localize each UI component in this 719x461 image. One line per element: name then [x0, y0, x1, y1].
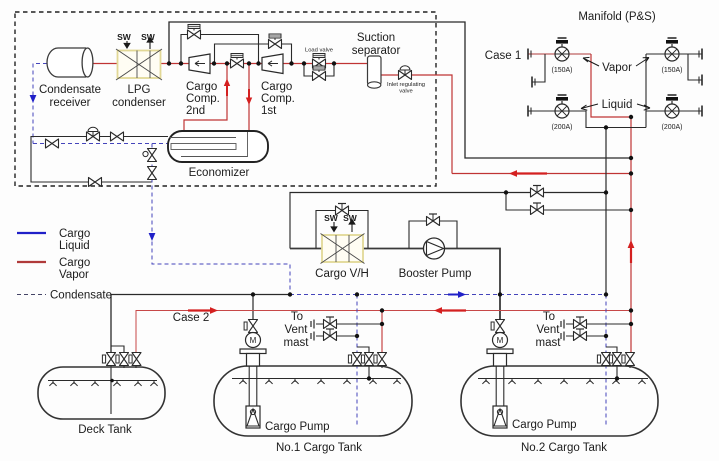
- svg-text:(200A): (200A): [661, 124, 682, 131]
- compressor cargo comp 2nd: [189, 54, 210, 74]
- spray nozzles no.2 tank: [482, 379, 489, 384]
- valve economizer line: [111, 132, 124, 141]
- compressor cargo comp 1st: [262, 54, 283, 74]
- svg-text:1st: 1st: [261, 105, 277, 117]
- valve booster bypass: [427, 214, 440, 226]
- no.2 tank valve group: flange+valve x3: [597, 355, 600, 363]
- svg-text:mast: mast: [284, 337, 310, 349]
- wire: V/H to booster pump main: [363, 249, 500, 323]
- wire: No.1 tank elbow: [357, 347, 369, 353]
- wire: manifold left vapor lower outlet: [532, 54, 545, 82]
- wire: manifold right liquid line: [646, 110, 702, 112]
- wire: manifold left liquid line: [528, 111, 646, 128]
- svg-text:Inlet regulating: Inlet regulating: [387, 82, 425, 88]
- arrow condensate down at drain: [149, 233, 156, 241]
- svg-text:Suction: Suction: [357, 32, 395, 44]
- wire: deck tank elbow: [111, 346, 124, 353]
- wire: crossover branch y=210: [506, 193, 631, 211]
- svg-text:To: To: [543, 311, 555, 323]
- wire: No.2 tank elbow: [606, 347, 617, 353]
- spray nozzles deck tank: [49, 381, 56, 386]
- wire: liquid header deck/No.1 y=294.5: [111, 295, 290, 356]
- flange no.1 vent upper: [311, 320, 314, 329]
- svg-text:(150A): (150A): [551, 67, 572, 74]
- svg-text:Comp.: Comp.: [261, 93, 295, 105]
- valve drain upper with gauge: [148, 149, 157, 162]
- wire: No.1 vent upper: [316, 323, 382, 325]
- svg-text:No.1 Cargo Tank: No.1 Cargo Tank: [276, 442, 362, 454]
- valve load upper: [313, 54, 326, 69]
- svg-text:Booster Pump: Booster Pump: [399, 268, 472, 280]
- flange no.2 vent upper: [561, 320, 564, 329]
- svg-text:Vapor: Vapor: [602, 62, 632, 74]
- valve no.1 vent upper: [324, 317, 337, 329]
- condensate receiver vessel: [47, 48, 93, 77]
- svg-text:separator: separator: [352, 45, 401, 57]
- wire: manifold left vapor line: [528, 53, 591, 55]
- wire: black economizer liquid line y=136.5: [31, 137, 168, 183]
- valve no.2 vent lower: [574, 329, 587, 341]
- valve no.1 vent lower: [324, 329, 337, 341]
- svg-text:Deck Tank: Deck Tank: [78, 424, 132, 436]
- wire: receiver condensate drain dashed: [33, 64, 47, 144]
- wire: red economizer drop B: [248, 64, 250, 132]
- LPG condenser heat exchanger: [116, 49, 162, 80]
- arrow economizer riser up: [226, 85, 228, 96]
- svg-text:2nd: 2nd: [186, 105, 205, 117]
- svg-text:Cargo: Cargo: [59, 257, 90, 269]
- no.1 tank valve group: flange+valve x3: [348, 355, 351, 363]
- arrow case2 right: [188, 309, 211, 311]
- wire: bypass loop A over comp 2nd: [181, 35, 259, 64]
- svg-text:mast: mast: [536, 337, 562, 349]
- valve economizer dome: [87, 127, 100, 141]
- svg-text:Vent: Vent: [284, 324, 308, 336]
- no.1 cargo tank shell: [214, 366, 412, 436]
- engine-room dashed boundary box: [15, 12, 436, 186]
- economizer vessel: [168, 131, 268, 162]
- wire: manifold right riser: [645, 54, 647, 128]
- wire: condensate drop line x=152 dashed: [152, 144, 290, 295]
- svg-text:receiver: receiver: [50, 97, 91, 109]
- wire: manifold right vapor line: [646, 53, 702, 55]
- svg-text:No.2 Cargo Tank: No.2 Cargo Tank: [521, 442, 607, 454]
- wire: No.1 pump riser x=253: [252, 295, 254, 323]
- flange no.2 vent lower: [561, 332, 564, 341]
- valve condensate feed: [46, 139, 59, 148]
- svg-text:Case 1: Case 1: [485, 50, 521, 62]
- svg-text:(150A): (150A): [661, 67, 682, 74]
- svg-text:Cargo: Cargo: [59, 228, 90, 240]
- flange stbd liquid: [699, 106, 702, 117]
- svg-text:Load valve: Load valve: [305, 48, 333, 54]
- valve bypass loop B: [269, 34, 282, 49]
- wire: red economizer riser A: [184, 64, 227, 132]
- svg-text:Liquid: Liquid: [602, 99, 633, 111]
- valve crossover lower: [531, 203, 544, 215]
- svg-text:Condensate: Condensate: [39, 84, 101, 96]
- valve crossover upper: [531, 186, 544, 198]
- arrow condensate right: [448, 294, 459, 296]
- flange stbd vapor lower: [699, 75, 702, 86]
- spray nozzles no.1 tank: [239, 379, 246, 384]
- svg-text:Cargo Pump: Cargo Pump: [512, 419, 577, 431]
- wire: No.1 group stub to sprayer: [369, 364, 382, 379]
- ball valve liquid port: [555, 95, 569, 118]
- legend cargo vapor: [17, 261, 46, 263]
- valve drain lower: [148, 167, 157, 180]
- deck tank valve group: flange+valve x3: [102, 355, 105, 363]
- wire: No.1 vent lower: [316, 335, 357, 337]
- wire: booster bypass: [409, 221, 457, 249]
- flange stbd vapor: [699, 49, 702, 60]
- arrow economizer drop down: [248, 89, 250, 98]
- no.2 cargo tank shell: [461, 366, 658, 436]
- wire: manifold right vapor lower outlet: [688, 54, 702, 80]
- wire: condensate header dashed y=294.5: [290, 294, 606, 296]
- wire: No.2 condensate drop dashed x=606: [605, 295, 607, 428]
- wire: red separator outlet to inlet reg valve and down: [381, 75, 452, 174]
- svg-text:LPG: LPG: [127, 84, 150, 96]
- wire: No.1 red vapor drop x=382: [381, 311, 383, 354]
- legend condensate: [17, 294, 46, 296]
- no.1 cargo pump unit: [240, 320, 266, 367]
- wire: No.1 condensate drop dashed x=357: [356, 295, 358, 428]
- booster pump: [424, 238, 445, 259]
- svg-text:Cargo: Cargo: [261, 81, 292, 93]
- no.1 tank spray header: [232, 378, 401, 380]
- wire: red case 2 vapor line y=310.5: [136, 311, 631, 356]
- svg-text:valve: valve: [399, 89, 413, 95]
- svg-text:Liquid: Liquid: [59, 240, 90, 252]
- flange case1 vapor: [528, 49, 531, 60]
- svg-text:Cargo V/H: Cargo V/H: [315, 268, 369, 280]
- cargo V/H heater: [321, 234, 365, 264]
- svg-text:condenser: condenser: [112, 97, 166, 109]
- svg-text:Case 2: Case 2: [173, 312, 209, 324]
- svg-text:Economizer: Economizer: [189, 167, 250, 179]
- arrow condensate down at receiver: [30, 95, 37, 103]
- valve no.2 vent upper: [574, 317, 587, 329]
- svg-text:Vapor: Vapor: [59, 269, 89, 281]
- valve load lower: [313, 66, 326, 81]
- arrow case2 left: [441, 309, 466, 311]
- wire: condensate feed to economizer dashed: [33, 143, 169, 145]
- deck tank spray header: [48, 380, 157, 382]
- suction separator vessel: [368, 56, 382, 88]
- deck tank shell: [38, 367, 165, 419]
- svg-text:Cargo: Cargo: [186, 81, 217, 93]
- valve inlet regulating: [399, 66, 412, 80]
- wire: manifold red drop: [591, 54, 631, 353]
- svg-text:Cargo Pump: Cargo Pump: [265, 421, 330, 433]
- ball valve vapor port: [555, 38, 569, 61]
- wire: cargo V/H bypass: [316, 211, 368, 249]
- no.2 cargo pump unit: [487, 320, 513, 367]
- flange case1 liquid: [528, 106, 531, 117]
- no.2 tank spray header: [478, 378, 648, 380]
- valve lower return line: [89, 178, 102, 187]
- legend cargo liquid: [17, 232, 46, 234]
- wire: crossover feed line y=192.5: [290, 193, 606, 249]
- svg-text:Manifold (P&S): Manifold (P&S): [578, 11, 656, 23]
- wire: black liquid drop x=606: [605, 128, 607, 295]
- ball valve starboard liquid: [665, 95, 679, 118]
- wire: No.2 group stub to sprayer: [617, 364, 630, 379]
- valve bypass loop A: [188, 25, 201, 40]
- wire: No.2 vent lower: [566, 335, 606, 337]
- flange no.1 vent lower: [311, 332, 314, 341]
- flange vapor port lower outlet: [532, 77, 535, 88]
- svg-text:Comp.: Comp.: [186, 93, 220, 105]
- wire: deck tank dip tube: [110, 363, 112, 414]
- wire: bypass loop B over comp 1st: [215, 44, 292, 64]
- wire: red suction header y=173.5: [452, 173, 631, 175]
- svg-text:Vent: Vent: [536, 324, 560, 336]
- svg-text:(200A): (200A): [551, 124, 572, 131]
- arrow suction header left: [516, 172, 547, 174]
- ball valve starboard vapor: [665, 38, 679, 61]
- wire: deck tank group stubs: [124, 364, 136, 368]
- wire: No.2 vent upper: [566, 323, 631, 325]
- svg-text:SW: SW: [117, 32, 132, 42]
- valve V/H bypass: [336, 204, 349, 216]
- valve interstage control: [231, 54, 244, 69]
- arrow manifold riser up: [630, 247, 632, 263]
- svg-text:To: To: [291, 311, 303, 323]
- wire: load valve lower loop: [304, 64, 334, 77]
- wire: red main compressor line y=63.5: [93, 63, 367, 65]
- svg-text:Condensate: Condensate: [50, 290, 112, 302]
- wire: black hot-gas top bypass: [169, 22, 631, 158]
